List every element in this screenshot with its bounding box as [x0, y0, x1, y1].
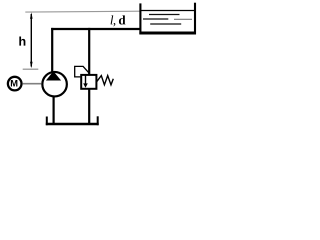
liquid shading line 3: [150, 23, 181, 25]
lower tank right wall: [97, 116, 99, 125]
upper tank bottom: [139, 32, 196, 35]
upper tank right wall: [194, 3, 196, 35]
wire: relief valve branch upper: [88, 28, 90, 75]
liquid shading line 1: [149, 14, 180, 16]
label l, d: [111, 15, 114, 24]
wire: pump-level reference line: [23, 68, 39, 70]
relief valve pilot line: [75, 66, 90, 77]
pump P1 circle: [42, 72, 67, 97]
wire: pump discharge riser: [51, 28, 53, 72]
dimension h top arrowhead: [30, 12, 33, 18]
dimension h bottom arrowhead: [30, 62, 33, 69]
dimension h line: [30, 14, 32, 67]
node: upper-tank liquid level reference line: [25, 10, 140, 13]
relief valve V1 body: [81, 75, 96, 89]
relief valve flow arrow shaft: [85, 76, 87, 85]
wire: relief valve return to tank: [88, 89, 90, 124]
relief valve spring: [97, 76, 114, 85]
motor label M: [11, 80, 18, 86]
pump flow triangle: [46, 71, 61, 80]
liquid shading line 2 left: [143, 18, 168, 20]
label h: [19, 36, 25, 45]
wire: discharge horizontal pipe: [51, 28, 140, 30]
motor-pump shaft: [23, 83, 42, 85]
electric motor M1 circle: [8, 77, 22, 91]
upper tank liquid surface line: [141, 10, 194, 12]
upper tank left wall: [139, 3, 141, 34]
wire: pump suction pipe: [52, 97, 54, 125]
relief valve flow arrowhead: [83, 83, 88, 87]
lower tank bottom: [46, 123, 99, 126]
lower tank left wall: [46, 117, 48, 126]
liquid shading line 2 right: [174, 18, 192, 20]
